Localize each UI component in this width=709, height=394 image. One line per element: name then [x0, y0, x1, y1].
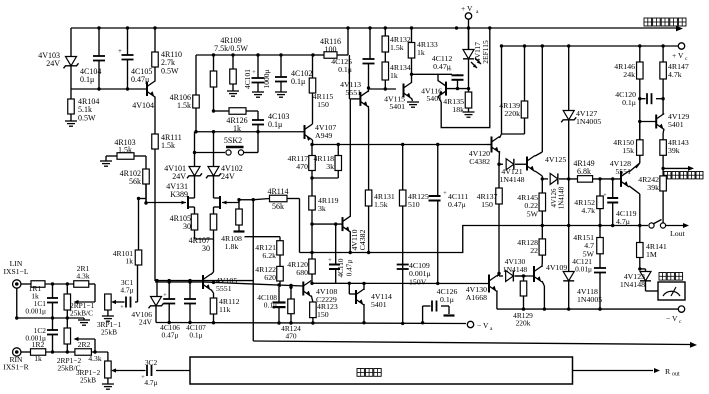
svg-text:5401: 5401	[668, 120, 684, 129]
svg-text:0.47μ: 0.47μ	[346, 260, 354, 277]
resistor 1R1	[21, 281, 74, 301]
node dots vc bus	[523, 44, 665, 47]
resistor 4R143	[660, 133, 689, 168]
svg-text:IXS1−R: IXS1−R	[3, 363, 29, 372]
svg-text:C4382: C4382	[469, 157, 490, 166]
svg-text:1N4005: 1N4005	[577, 295, 602, 304]
resistor 4R141	[637, 226, 667, 271]
wire output bus	[300, 226, 649, 253]
resistor 4R107	[189, 214, 217, 272]
resistor 4R111	[152, 133, 182, 281]
svg-text:0.001μ: 0.001μ	[25, 307, 46, 316]
svg-text:39k: 39k	[647, 183, 659, 192]
svg-text:5551: 5551	[345, 88, 361, 97]
svg-text:22: 22	[530, 246, 538, 255]
svg-text:5551: 5551	[615, 167, 631, 176]
svg-text:4.7μ: 4.7μ	[144, 378, 157, 387]
svg-text:7.5k/0.5W: 7.5k/0.5W	[214, 44, 248, 53]
resistor 4R105	[170, 214, 198, 239]
svg-text:0.5W: 0.5W	[78, 113, 96, 122]
capacitor 4C102	[275, 55, 312, 97]
svg-text:150: 150	[317, 100, 329, 109]
capacitor 4C119	[603, 179, 636, 226]
pot 3RP1-2	[76, 352, 118, 389]
svg-text:0.1μ: 0.1μ	[189, 331, 202, 340]
terminal +Vc	[672, 43, 688, 62]
resistor 4R119	[309, 178, 339, 259]
svg-text:220k: 220k	[504, 109, 520, 118]
svg-text:24V: 24V	[172, 172, 186, 181]
svg-text:5551: 5551	[216, 284, 232, 293]
resistor 4R242	[638, 168, 666, 225]
svg-text:1N4148: 1N4148	[620, 280, 645, 289]
zener 4V102	[206, 132, 243, 196]
capacitor 4C120	[615, 90, 665, 107]
resistor 4R124	[281, 286, 301, 341]
resistor 4R137	[477, 164, 503, 273]
resistor 4R123	[310, 296, 338, 324]
resistor 4R120	[287, 259, 315, 285]
svg-text:0.5W: 0.5W	[161, 66, 179, 75]
capacitor 4C112	[432, 54, 464, 89]
resistor 4R139	[499, 46, 528, 134]
svg-text:56k: 56k	[272, 202, 284, 211]
svg-text:A949: A949	[315, 131, 332, 140]
transistor 4V113	[340, 55, 370, 110]
svg-text:+: +	[443, 190, 447, 197]
svg-text:1.5k: 1.5k	[374, 200, 388, 209]
resistor 2R2	[75, 340, 108, 363]
wire 4V109 base	[515, 274, 535, 277]
diode 4V126	[542, 173, 577, 209]
wire 4R101 top link	[139, 184, 148, 205]
resistor 4R133	[408, 28, 438, 74]
resistor 4R129	[513, 276, 533, 328]
svg-text:24V: 24V	[46, 59, 60, 68]
svg-text:C4382: C4382	[358, 230, 367, 251]
jfet 4V131a	[182, 196, 195, 214]
resistor 4R145	[517, 177, 545, 225]
svg-text:39k: 39k	[668, 146, 680, 155]
wire gnd mid	[15, 288, 90, 325]
capacitor 4C108	[257, 287, 285, 324]
resistor 4R103	[100, 138, 146, 166]
wire mid bus y144	[310, 143, 487, 146]
svg-text:4V104: 4V104	[132, 101, 154, 110]
capacitor 1C1	[25, 284, 58, 318]
switch 5SK2	[193, 132, 258, 155]
pot 3RP1-1	[97, 294, 122, 337]
label 4R109	[214, 36, 248, 53]
svg-text:IXS1−L: IXS1−L	[4, 267, 29, 276]
wire 4R121 feed	[245, 237, 281, 241]
svg-text:3k: 3k	[326, 162, 334, 171]
svg-text:+: +	[252, 69, 256, 76]
resistor 4R117	[287, 145, 315, 180]
resistor 4R118	[312, 145, 342, 179]
wire 4V110 base	[310, 222, 342, 225]
wire jfet gate left	[146, 202, 186, 204]
wire base bus y132	[194, 130, 304, 133]
svg-text:1k: 1k	[233, 124, 241, 133]
resistor 4R109b	[227, 55, 239, 96]
wire 4V116 emitter loop	[441, 26, 491, 127]
switch Lout	[649, 220, 689, 239]
diode 4V118	[563, 226, 602, 310]
svg-text:30: 30	[202, 244, 210, 253]
transistor 4V128	[610, 159, 640, 226]
svg-text:0.1μ: 0.1μ	[440, 295, 454, 304]
resistor 4R132	[382, 28, 411, 62]
wire jfet gate right	[222, 198, 241, 202]
resistor 4R128	[517, 226, 545, 263]
svg-text:56k: 56k	[129, 177, 141, 186]
svg-text:+ V: + V	[461, 4, 473, 13]
transistor 4V125	[527, 46, 566, 179]
node dots top bus	[97, 26, 470, 29]
svg-text:1000μ: 1000μ	[262, 69, 271, 88]
resistor 4R109a	[210, 55, 217, 111]
svg-text:1k: 1k	[34, 354, 42, 363]
node dots input L	[51, 282, 69, 285]
resistor 4R149	[567, 159, 621, 183]
svg-text:0.47μ: 0.47μ	[162, 331, 179, 340]
resistor 4R108	[221, 200, 244, 251]
diode 4V121	[499, 159, 527, 184]
svg-text:K389: K389	[170, 190, 188, 199]
resistor 4R135	[443, 89, 474, 118]
svg-text:4V109: 4V109	[546, 263, 567, 272]
terminal +Va	[461, 4, 479, 50]
resistor 4R112	[210, 293, 239, 323]
wire 4V104 collector	[154, 97, 156, 135]
wire second bus	[196, 28, 348, 55]
led 4V117	[463, 28, 490, 89]
transistor 4V115	[384, 73, 419, 111]
resistor 4R101	[113, 197, 142, 266]
wire +Vc bus	[502, 45, 679, 47]
svg-text:470: 470	[296, 162, 308, 171]
svg-text:A1668: A1668	[466, 293, 487, 302]
resistor 2R1	[74, 264, 95, 287]
resistor 4R116	[320, 37, 341, 58]
resistor 1R2	[21, 340, 75, 363]
node dots output bus	[310, 224, 641, 254]
terminal -Vc	[666, 306, 685, 325]
diode 4V123	[620, 269, 651, 291]
svg-text:25kB: 25kB	[101, 328, 117, 337]
resistor 4R131	[365, 110, 395, 253]
svg-text:1.5k: 1.5k	[118, 145, 132, 154]
resistor 4R121	[255, 241, 283, 267]
wire top power bus	[71, 26, 683, 32]
resistor 4R151	[573, 226, 603, 269]
svg-text:+: +	[328, 257, 332, 264]
svg-text:0.47μ: 0.47μ	[448, 200, 466, 209]
svg-text:1.5k: 1.5k	[161, 141, 175, 150]
capacitor 4C107	[184, 281, 206, 340]
svg-text:4C110: 4C110	[337, 258, 345, 277]
transistor 4V120	[469, 134, 502, 166]
svg-text:6.2k: 6.2k	[262, 251, 276, 260]
wire y199 node	[239, 198, 255, 201]
wire vc drop	[500, 44, 525, 134]
svg-text:100: 100	[325, 45, 337, 54]
svg-text:1k: 1k	[390, 71, 398, 80]
svg-text:150V: 150V	[409, 277, 427, 286]
terminal RIN	[3, 348, 29, 372]
svg-text:1.8k: 1.8k	[225, 242, 239, 251]
svg-text:4R114: 4R114	[267, 187, 288, 196]
svg-text:25kB: 25kB	[80, 376, 96, 385]
svg-text:4.7k: 4.7k	[668, 70, 682, 79]
resistor 4R150	[613, 122, 643, 169]
capacitor 1C2	[25, 318, 58, 352]
svg-text:470: 470	[285, 332, 296, 341]
box right channel	[190, 357, 573, 384]
svg-text:150: 150	[481, 200, 493, 209]
capacitor 4C106	[160, 281, 180, 340]
svg-text:5SK2: 5SK2	[224, 136, 242, 145]
svg-text:18k: 18k	[452, 105, 464, 114]
capacitor 4C103	[252, 111, 289, 132]
resistor 4R104	[65, 89, 99, 126]
resistor 4R114	[253, 187, 299, 253]
svg-text:0.1μ: 0.1μ	[264, 301, 277, 310]
resistor 4R152	[574, 179, 603, 226]
capacitor 3C2	[118, 358, 190, 387]
svg-text:0.1μ: 0.1μ	[622, 98, 636, 107]
svg-text:1k: 1k	[125, 257, 133, 266]
transistor 4V114	[348, 282, 392, 325]
resistor 4R122	[255, 265, 283, 287]
wire 4R106 drop	[195, 55, 197, 95]
capacitor 3C1	[120, 265, 137, 311]
svg-text:30: 30	[183, 222, 191, 231]
svg-text:5401: 5401	[389, 102, 405, 111]
capacitor 4C126	[421, 287, 458, 324]
label to-protection top right	[644, 18, 686, 26]
svg-text:4V125: 4V125	[545, 155, 566, 164]
svg-text:24V: 24V	[221, 172, 235, 181]
wire Rout	[573, 367, 681, 378]
svg-text:+: +	[603, 192, 607, 199]
pot 2RP1-1	[64, 284, 95, 318]
svg-text:3C2: 3C2	[145, 358, 158, 367]
resistor 4R110	[152, 28, 182, 80]
svg-text:150: 150	[317, 310, 329, 319]
capacitor 4C110	[328, 224, 353, 283]
svg-text:1k: 1k	[417, 48, 425, 57]
wire low bus left	[155, 280, 203, 283]
node dots second bus	[212, 53, 315, 56]
transistor 4V108	[303, 281, 337, 305]
svg-text:4.3k: 4.3k	[88, 354, 101, 363]
resistor 4R102	[120, 156, 150, 203]
pot 2RP1-2	[57, 318, 95, 373]
wire low bus right	[312, 282, 489, 285]
terminal -Va	[467, 321, 493, 332]
transistor 4V110	[343, 99, 368, 253]
node dots input R	[51, 350, 97, 353]
svg-text:25kB/C: 25kB/C	[70, 309, 93, 318]
wire gnd bus	[156, 321, 466, 325]
svg-text:510: 510	[408, 200, 420, 209]
wire 4V116 base	[446, 87, 470, 90]
svg-text:4.7μ: 4.7μ	[120, 286, 133, 295]
zener 4V106	[131, 281, 163, 327]
zener 4V101	[164, 132, 202, 196]
capacitor 4C111	[429, 145, 469, 284]
svg-text:1M: 1M	[646, 250, 657, 259]
label 4V131 K389	[166, 182, 188, 199]
wire feedback horizontal	[253, 341, 697, 348]
svg-text:3k: 3k	[318, 204, 326, 213]
svg-text:+: +	[120, 304, 124, 311]
capacitor 4C125	[331, 28, 374, 88]
svg-text:680: 680	[296, 268, 308, 277]
transistor 4V104	[132, 80, 155, 110]
svg-text:5401: 5401	[371, 300, 387, 309]
svg-text:4C101: 4C101	[243, 69, 252, 89]
capacitor 4C121	[572, 257, 606, 309]
wire y89 left	[71, 87, 146, 90]
resistor 4R134	[382, 62, 411, 89]
wire y88 link	[369, 87, 397, 90]
svg-text:4.7k: 4.7k	[581, 206, 595, 215]
svg-text:1N4148: 1N4148	[503, 265, 528, 274]
resistor 4R147	[660, 46, 689, 114]
wire left drop	[70, 28, 72, 57]
svg-text:15k: 15k	[622, 146, 634, 155]
svg-text:4.3k: 4.3k	[76, 272, 89, 281]
svg-text:1N4148: 1N4148	[558, 186, 566, 209]
resistor 4R125	[399, 145, 428, 265]
svg-text:1.5k: 1.5k	[390, 43, 404, 52]
transistor 4V107	[305, 93, 337, 145]
transistor 4V109	[534, 262, 567, 309]
svg-text:out: out	[672, 372, 680, 378]
svg-text:2R2: 2R2	[78, 340, 91, 349]
svg-text:Lout: Lout	[670, 229, 686, 238]
terminal LIN	[4, 259, 29, 288]
resistor 4R146	[614, 46, 643, 140]
wire protect arrow right	[661, 166, 703, 179]
transistor 4V105	[203, 272, 237, 293]
transistor 4V129	[638, 112, 689, 133]
svg-text:+: +	[118, 47, 122, 55]
svg-text:+ V: + V	[672, 51, 684, 60]
svg-text:0.1μ: 0.1μ	[291, 77, 305, 86]
svg-text:+: +	[163, 292, 167, 299]
svg-text:− V: − V	[477, 321, 489, 330]
svg-text:24k: 24k	[623, 70, 635, 79]
svg-text:R: R	[665, 367, 671, 376]
svg-text:1N4005: 1N4005	[576, 117, 601, 126]
capacitor 4C104	[80, 28, 105, 89]
svg-text:0.1μ: 0.1μ	[268, 120, 282, 129]
jfet 4V131b	[214, 196, 227, 214]
svg-text:620: 620	[264, 273, 276, 282]
capacitor 4C101	[243, 55, 271, 97]
resistor 4R126	[212, 108, 258, 133]
zener 4V103	[38, 51, 78, 89]
svg-text:0.01μ: 0.01μ	[575, 265, 592, 274]
meter symbol	[646, 273, 686, 301]
transistor 4V116	[412, 74, 453, 103]
svg-text:0.1μ: 0.1μ	[80, 75, 94, 84]
svg-text:0.47μ: 0.47μ	[433, 62, 451, 71]
diode 4V130b	[499, 257, 527, 282]
resistor 4R115	[309, 55, 333, 109]
wire feedback vertical	[252, 200, 254, 341]
svg-text:1R2: 1R2	[32, 340, 45, 349]
svg-text:1N4148: 1N4148	[499, 175, 524, 184]
wire low bus mid	[203, 281, 303, 288]
wire low bus y281	[155, 279, 253, 282]
svg-text:5W: 5W	[527, 209, 539, 218]
capacitor 4C109	[397, 261, 431, 323]
resistor 4R106	[170, 93, 200, 132]
wire -Vc bus	[497, 307, 679, 310]
svg-text:220k: 220k	[516, 319, 531, 328]
svg-text:11k: 11k	[219, 305, 231, 314]
zener 4V127	[561, 46, 601, 226]
transistor 4V130 power	[466, 272, 501, 309]
svg-text:− V: − V	[666, 314, 678, 323]
svg-text:2EF115: 2EF115	[481, 40, 490, 64]
svg-text:6.8k: 6.8k	[577, 167, 591, 176]
capacitor 4C105	[118, 28, 152, 89]
svg-text:24V: 24V	[139, 318, 153, 327]
svg-text:1.5k: 1.5k	[177, 101, 191, 110]
